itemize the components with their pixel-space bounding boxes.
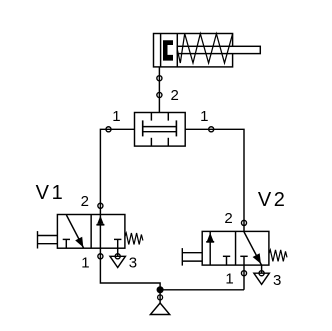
V2 right box diagonal path	[244, 232, 261, 265]
V2 left box blocked port T	[226, 256, 228, 265]
wire cylinder port to AND valve port 2	[158, 67, 160, 113]
V1 exhaust triangle	[110, 256, 125, 267]
wire V2 port 1 to supply junction	[243, 265, 245, 290]
AND valve port 2 connector	[157, 92, 162, 97]
svg-text:1: 1	[81, 255, 89, 272]
compressed air source connector	[158, 295, 163, 300]
svg-text:V: V	[258, 189, 272, 211]
V2 left box up arrow	[207, 233, 213, 241]
svg-text:1: 1	[112, 108, 120, 125]
V1 left box arrowhead	[75, 237, 83, 248]
return spring	[177, 34, 232, 63]
shuttle right bar	[175, 120, 177, 136]
svg-text:3: 3	[129, 255, 137, 272]
svg-text:V: V	[36, 182, 50, 204]
V1 port 3 connector	[115, 254, 120, 259]
top seats	[150, 113, 152, 121]
V2 manual actuator	[181, 248, 183, 266]
V1 divider	[90, 215, 92, 249]
V1 right box blocked port T	[117, 239, 119, 248]
piston left face	[160, 34, 162, 67]
svg-text:1: 1	[200, 108, 208, 125]
V2 port 2 connector	[241, 220, 246, 225]
V1 port 1 connector	[98, 254, 103, 259]
V2 body	[202, 231, 269, 265]
V2 right box blocked port T	[243, 256, 245, 265]
cylinder A1 (single-acting, spring return)	[154, 34, 261, 67]
svg-text:2: 2	[274, 189, 285, 211]
shuttle left bar	[142, 120, 144, 136]
two-pressure valve (AND)	[135, 113, 186, 147]
AND valve right port connector	[209, 127, 214, 132]
V2 port 1 connector	[241, 271, 246, 276]
wire AND valve left port 1 to V1 port 2	[100, 129, 160, 303]
valve V1 (3/2 way, manual, spring return)	[38, 215, 143, 249]
valve V2 (3/2 way, manual, spring return)	[182, 231, 287, 265]
V1 manual actuator	[37, 231, 39, 248]
V1 return spring	[125, 233, 143, 245]
V2 port 3 stub	[261, 265, 263, 273]
supply bus wire	[160, 289, 244, 291]
cylinder barrel	[154, 34, 233, 67]
shuttle crossbars	[143, 126, 177, 128]
svg-text:1: 1	[52, 182, 63, 204]
piston magnet (black C)	[163, 40, 173, 60]
V2 return spring	[269, 250, 287, 262]
V1 right box up arrow	[97, 216, 103, 224]
V1 body	[57, 215, 125, 249]
V1 left box diagonal path	[66, 215, 83, 248]
AND valve body	[135, 113, 186, 147]
junction dot	[157, 286, 164, 293]
piston rod	[177, 46, 260, 53]
V2 left box flow line	[209, 231, 211, 265]
svg-text:2: 2	[171, 87, 179, 104]
V1 left box blocked port T	[65, 239, 67, 248]
wire AND valve right port 1 to V2 port 2	[185, 129, 244, 231]
svg-text:1: 1	[225, 271, 233, 288]
svg-text:2: 2	[81, 193, 89, 210]
compressed air source triangle	[150, 303, 169, 315]
V1 port 2 connector	[98, 203, 103, 208]
V2 right box arrowhead	[253, 253, 261, 264]
V2 exhaust triangle	[254, 273, 269, 284]
cylinder port connector	[157, 76, 162, 81]
bottom seats	[150, 138, 152, 146]
piston right face	[176, 34, 178, 67]
svg-text:2: 2	[224, 210, 232, 227]
V2 port 3 connector	[259, 271, 264, 276]
V1 port 3 stub	[117, 248, 119, 256]
V2 divider	[235, 231, 237, 265]
AND valve left port connector	[106, 127, 111, 132]
svg-text:3: 3	[273, 272, 281, 289]
